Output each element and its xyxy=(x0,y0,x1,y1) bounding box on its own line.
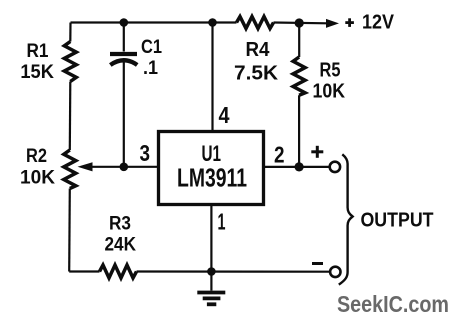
svg-text:7.5K: 7.5K xyxy=(234,62,278,85)
plus sign at output + terminal xyxy=(311,146,323,158)
minus sign at output - terminal xyxy=(312,262,323,265)
wire C1 branch top xyxy=(123,23,125,52)
svg-text:R5: R5 xyxy=(320,59,341,82)
svg-text:R4: R4 xyxy=(246,39,271,61)
wire R5 branch upper xyxy=(298,23,300,57)
output terminal - (open circle) xyxy=(330,267,340,277)
svg-text:24K: 24K xyxy=(105,235,137,256)
svg-text:3: 3 xyxy=(140,140,151,166)
wire bottom rail left segment xyxy=(69,270,99,272)
arrowhead +12V supply xyxy=(326,19,339,28)
resistor R4 xyxy=(237,17,274,29)
node dot top rail / R5 xyxy=(295,18,304,27)
svg-text:10K: 10K xyxy=(313,80,346,103)
wire pin 2 horizontal xyxy=(264,166,330,168)
svg-text:10K: 10K xyxy=(20,168,55,189)
capacitor C1 xyxy=(110,54,137,65)
svg-text:R2: R2 xyxy=(26,146,47,167)
svg-text:4: 4 xyxy=(219,102,230,128)
wire left rail upper xyxy=(69,23,71,42)
svg-text:SeekIC.com: SeekIC.com xyxy=(337,291,449,317)
node dot pin3 / C1 xyxy=(120,163,129,172)
svg-text:R3: R3 xyxy=(109,214,131,235)
wire pin 3 horizontal xyxy=(93,166,158,168)
svg-text:OUTPUT: OUTPUT xyxy=(361,208,434,231)
wire left rail lower xyxy=(68,189,71,272)
resistor R1 xyxy=(64,42,76,82)
wire bottom rail right segment xyxy=(137,270,330,272)
svg-text:15K: 15K xyxy=(20,62,54,83)
wire top rail right segment xyxy=(274,21,328,24)
wire R5 branch lower xyxy=(298,95,300,167)
node dot pin2 / R5 xyxy=(295,162,304,171)
output brace xyxy=(339,154,353,284)
wire pin 4 vertical xyxy=(211,23,213,132)
wire left rail middle xyxy=(69,82,72,151)
resistor R5 xyxy=(293,57,305,95)
svg-text:C1: C1 xyxy=(141,37,162,58)
plus sign of +12V xyxy=(345,18,354,27)
node dot top rail / C1 xyxy=(120,18,129,27)
output terminal + (open circle) xyxy=(330,162,340,172)
svg-text:.1: .1 xyxy=(143,58,158,79)
svg-text:1: 1 xyxy=(218,209,226,235)
arrowhead pot wiper (points left into R2) xyxy=(78,162,93,171)
svg-text:2: 2 xyxy=(274,142,285,168)
svg-text:LM3911: LM3911 xyxy=(177,162,247,192)
node dot top rail / pin4 xyxy=(208,18,217,27)
ground xyxy=(197,272,225,305)
wire top rail left segment xyxy=(71,21,237,23)
resistor R3 xyxy=(100,265,137,278)
wire pin 1 vertical xyxy=(210,205,212,272)
svg-text:12V: 12V xyxy=(362,12,395,34)
IC op-amp U1 LM3911 box xyxy=(159,132,264,205)
wire C1 branch bottom to pin3 node xyxy=(123,62,125,167)
svg-text:R1: R1 xyxy=(27,41,49,62)
potentiometer R2 xyxy=(64,150,76,189)
node dot pin1 / bottom rail xyxy=(207,267,216,276)
